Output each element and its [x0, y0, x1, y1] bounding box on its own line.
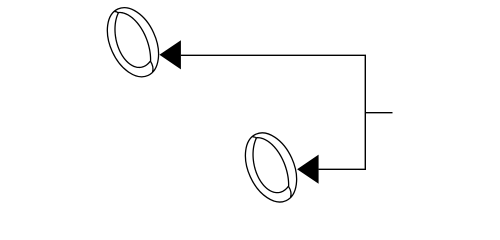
leader wire: arrow1 right, down, to arrow2	[181, 55, 365, 169]
seal 2: hole-to-rim tangency wedge	[253, 136, 256, 139]
seal 2: outer rim silhouette	[235, 125, 307, 210]
o-ring seal 1 (top left)	[97, 0, 169, 85]
leader arrowhead 2	[297, 155, 319, 184]
seal 1: hole-to-rim tangency wedge	[115, 11, 118, 14]
seal 1: outer rim silhouette	[97, 0, 169, 85]
seal 2: bore hole edge	[253, 138, 289, 193]
seal 1: bore hole edge	[115, 12, 151, 67]
seal 1: bore thickness cusp tail	[150, 61, 153, 72]
o-ring seal 2 (bottom)	[235, 125, 307, 210]
branch tick wire	[365, 112, 392, 114]
leader arrowhead 1	[159, 40, 181, 69]
seal 2: bore thickness cusp tail	[288, 186, 291, 197]
